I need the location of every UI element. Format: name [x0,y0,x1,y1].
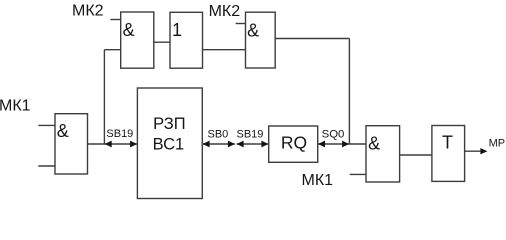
svg-text:ВС1: ВС1 [153,135,185,153]
svg-text:1: 1 [172,20,182,40]
svg-text:&: & [368,134,380,154]
svg-text:МК2: МК2 [72,3,104,20]
svg-text:&: & [123,20,135,40]
svg-text:МК1: МК1 [302,172,334,189]
svg-text:МК1: МК1 [0,97,31,114]
svg-text:RQ: RQ [281,133,307,153]
svg-text:&: & [247,21,259,41]
svg-text:&: & [57,121,69,141]
svg-text:SB0: SB0 [208,128,229,140]
svg-text:РЗП: РЗП [153,115,185,133]
svg-text:SB19: SB19 [106,128,133,140]
svg-text:SB19: SB19 [237,128,264,140]
svg-text:МР: МР [489,137,506,149]
svg-text:МК2: МК2 [209,3,241,20]
svg-text:SQ0: SQ0 [322,128,345,140]
svg-text:T: T [442,133,453,153]
